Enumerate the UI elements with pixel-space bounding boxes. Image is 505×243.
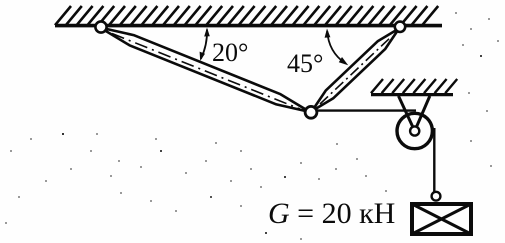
45 deg arc top arrowhead <box>325 29 331 38</box>
20 deg angle arc <box>201 30 207 60</box>
pulley bracket V <box>399 96 430 131</box>
20 deg arc top arrowhead <box>204 28 210 37</box>
bar 1 (20 deg rod) <box>100 28 310 113</box>
45 deg angle arc <box>327 31 345 64</box>
20 deg arc bottom arrowhead <box>200 52 205 61</box>
support 2 hatching <box>371 79 457 93</box>
weight box <box>412 204 471 234</box>
svg-text:G = 20 кН: G = 20 кН <box>268 197 395 230</box>
bar 1 dash-dot centerline <box>112 34 300 110</box>
pin at left ceiling attachment <box>95 21 106 32</box>
svg-text:20°: 20° <box>212 38 248 67</box>
45 deg arc bottom arrowhead <box>339 57 348 65</box>
ceiling hatching <box>55 6 438 25</box>
wire: vertical cable from pulley to hook ring <box>433 128 435 193</box>
hook ring above weight <box>432 192 441 201</box>
pin at right ceiling attachment <box>395 22 405 32</box>
pulley wheel <box>397 113 432 148</box>
svg-text:45°: 45° <box>287 49 323 78</box>
ceiling line <box>55 24 442 28</box>
bar 2 (45 deg rod) <box>312 29 399 112</box>
joint pin where bars meet <box>305 106 317 118</box>
pulley hub pin <box>410 126 419 135</box>
bar 2 dash-dot centerline <box>320 36 392 104</box>
support 2 line <box>371 93 453 96</box>
weight box X diagonals <box>412 204 471 234</box>
wire: horizontal cable from joint to pulley <box>311 109 416 111</box>
